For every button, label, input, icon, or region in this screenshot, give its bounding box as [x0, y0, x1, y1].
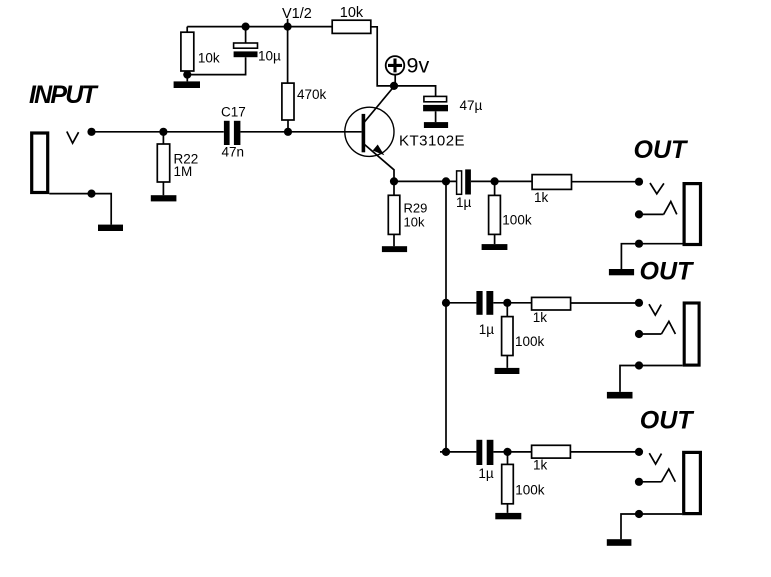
ground under 100k (output 3): [495, 513, 521, 519]
node input tip: [87, 128, 95, 136]
wire cap2 to 1k: [493, 302, 531, 304]
svg-text:R29: R29: [404, 201, 428, 216]
capacitor 1µ (output 2): [476, 291, 493, 315]
resistor 470k: [282, 27, 294, 132]
wire jack1 sleeve: [621, 244, 682, 269]
node divider ground junction: [183, 71, 191, 79]
svg-text:OUT: OUT: [640, 406, 696, 434]
ground under 100k (output 2): [495, 368, 520, 374]
node load tap 2: [503, 299, 511, 307]
capacitor 1µ (output 1): [457, 169, 471, 194]
output jack J4: [684, 452, 701, 513]
wire bus to cap2: [446, 302, 476, 304]
input jack J1: [32, 133, 48, 193]
ground under R29: [382, 246, 407, 252]
svg-text:9v: 9v: [407, 53, 430, 77]
input jack tip contact: [67, 132, 79, 144]
capacitor C17: [224, 121, 241, 145]
node jack1 tip: [635, 178, 643, 186]
jack1 tip contact: [650, 183, 664, 194]
wire input sleeve: [49, 194, 111, 225]
svg-text:1µ: 1µ: [479, 322, 495, 337]
svg-text:V1/2: V1/2: [282, 6, 312, 22]
svg-text:C17: C17: [221, 105, 246, 120]
node emitter: [390, 177, 398, 185]
svg-text:100k: 100k: [515, 334, 545, 349]
svg-text:10k: 10k: [340, 5, 364, 21]
capacitor 1µ (output 3): [476, 440, 493, 465]
resistor 100k (output 2): [502, 303, 513, 368]
wire 10k to supply node: [371, 27, 390, 86]
wire input tip to C17: [92, 131, 224, 133]
battery +9v symbol: [386, 56, 405, 86]
jack3 tip contact: [649, 453, 661, 464]
resistor R29: [388, 181, 400, 246]
ground under 10k: [174, 81, 200, 88]
wire cap1 to 1k: [471, 180, 532, 182]
resistor 1k (output 2): [532, 297, 571, 310]
node input sleeve: [87, 190, 95, 198]
ground jack2 sleeve: [607, 392, 633, 399]
wire jack3 sleeve: [621, 514, 682, 539]
node bus row3: [442, 448, 450, 456]
svg-text:47n: 47n: [222, 145, 245, 160]
resistor 100k (output 1): [489, 181, 501, 244]
node jack1 ring: [635, 210, 643, 218]
node jack3 sleeve: [635, 510, 643, 518]
ground under R22: [151, 195, 177, 201]
svg-text:1k: 1k: [534, 190, 549, 205]
svg-text:47µ: 47µ: [460, 98, 483, 113]
wire emitter row: [394, 180, 456, 182]
svg-text:OUT: OUT: [634, 136, 690, 164]
node jack1 sleeve: [635, 240, 643, 248]
svg-text:1µ: 1µ: [478, 466, 494, 481]
svg-text:10µ: 10µ: [258, 48, 281, 63]
wire distribution bus: [445, 181, 447, 452]
resistor 10k (collector feed): [332, 20, 371, 33]
resistor 100k (output 3): [502, 452, 514, 513]
ground under 47µ: [424, 122, 448, 128]
node load tap 3: [503, 448, 511, 456]
ground input sleeve: [98, 225, 123, 231]
node base bias junction: [284, 128, 292, 136]
ground jack3 sleeve: [607, 539, 632, 546]
ground jack1 sleeve: [609, 269, 634, 275]
svg-text:1k: 1k: [533, 458, 548, 473]
jack2 ring contact: [639, 321, 675, 334]
jack3 ring contact: [639, 469, 675, 482]
svg-text:KT3102E: KT3102E: [399, 132, 465, 149]
svg-text:10k: 10k: [198, 51, 220, 66]
wire 1k to jack 2: [571, 302, 639, 304]
svg-text:1k: 1k: [533, 310, 548, 325]
node jack2 tip: [635, 299, 643, 307]
node supply 9v: [390, 82, 398, 90]
node V1/2: [284, 19, 292, 31]
capacitor 10µ: [187, 27, 257, 75]
transistor Q1 KT3102E: [345, 87, 394, 182]
svg-text:1M: 1M: [174, 164, 193, 179]
svg-text:100k: 100k: [502, 212, 532, 227]
wire 1k to jack 3: [570, 451, 639, 453]
wire jack2 sleeve: [620, 366, 683, 392]
output jack J2: [684, 184, 700, 245]
node bus row2: [442, 299, 450, 307]
node load tap 1: [491, 177, 499, 185]
resistor R22: [157, 132, 169, 195]
jack2 tip contact: [649, 304, 661, 315]
svg-text:1µ: 1µ: [456, 195, 472, 210]
node jack2 ring: [635, 330, 643, 338]
jack1 ring contact: [639, 202, 677, 215]
resistor 10k (left bias divider): [181, 27, 194, 82]
svg-text:10k: 10k: [404, 215, 425, 230]
wire base: [240, 131, 361, 133]
wire 1k to jack 1: [572, 181, 640, 183]
node R22 tap: [159, 128, 167, 136]
node cap rail tap: [242, 23, 250, 31]
wire top supply rail: [187, 26, 332, 28]
wire cap3 to 1k: [493, 451, 531, 453]
ground under 100k (output 1): [482, 244, 508, 250]
svg-text:INPUT: INPUT: [29, 81, 100, 109]
svg-text:OUT: OUT: [640, 258, 696, 286]
wire bus to cap3: [440, 451, 476, 453]
node jack3 ring: [635, 478, 643, 486]
resistor 1k (output 1): [532, 175, 571, 190]
capacitor 47µ: [394, 86, 448, 122]
svg-text:100k: 100k: [515, 483, 545, 498]
output jack J3: [684, 303, 699, 365]
resistor 1k (output 3): [532, 445, 571, 458]
svg-text:470k: 470k: [297, 87, 327, 102]
node bus row1: [442, 177, 450, 185]
node jack2 sleeve: [635, 361, 643, 369]
node jack3 tip: [635, 448, 643, 456]
